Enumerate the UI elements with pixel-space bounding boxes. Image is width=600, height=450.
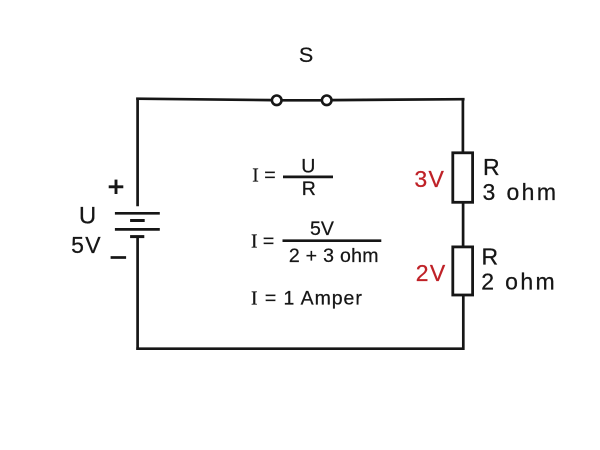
svg-text:I =: I = [252, 165, 275, 187]
battery minus terminal sign [111, 256, 127, 259]
svg-text:2 ohm: 2 ohm [481, 269, 557, 295]
wire between switch contacts [277, 99, 327, 102]
switch S contact circle right [322, 96, 332, 106]
svg-text:R: R [302, 178, 316, 200]
svg-text:U: U [79, 203, 96, 230]
svg-text:3 ohm: 3 ohm [483, 179, 559, 205]
svg-text:I = 1 Amper: I = 1 Amper [251, 287, 363, 309]
battery U plate short lower [130, 235, 144, 238]
fraction bar U over R [283, 176, 333, 179]
wire right vertical upper [462, 98, 465, 153]
battery U plate long top [115, 212, 160, 215]
svg-text:3V: 3V [414, 166, 445, 192]
svg-text:I =: I = [251, 230, 274, 252]
battery plus terminal sign [109, 180, 124, 194]
fraction bar 5V over 2 + 3 ohm [283, 239, 382, 242]
switch S contact circle left [272, 96, 282, 106]
svg-text:S: S [299, 43, 313, 67]
svg-text:2V: 2V [416, 260, 447, 286]
wire top-left horizontal segment [136, 99, 272, 100]
svg-text:5V: 5V [310, 218, 334, 240]
wire left vertical upper (to battery +) [136, 98, 139, 207]
battery U plate short upper [130, 219, 145, 222]
svg-text:R: R [483, 154, 500, 180]
resistor R 2 ohm body [453, 247, 473, 295]
wire right vertical lower [462, 295, 465, 350]
wire left vertical lower (battery - to bottom) [136, 237, 139, 350]
svg-text:R: R [482, 244, 499, 270]
svg-text:U: U [301, 155, 315, 177]
svg-text:5V: 5V [71, 232, 102, 258]
svg-text:2 + 3 ohm: 2 + 3 ohm [289, 245, 379, 267]
wire bottom horizontal [136, 347, 464, 350]
wire top-right horizontal segment [331, 98, 464, 102]
wire right vertical middle (between resistors) [462, 202, 465, 247]
battery U plate long bottom [115, 228, 160, 231]
resistor R 3 ohm body [453, 153, 473, 203]
